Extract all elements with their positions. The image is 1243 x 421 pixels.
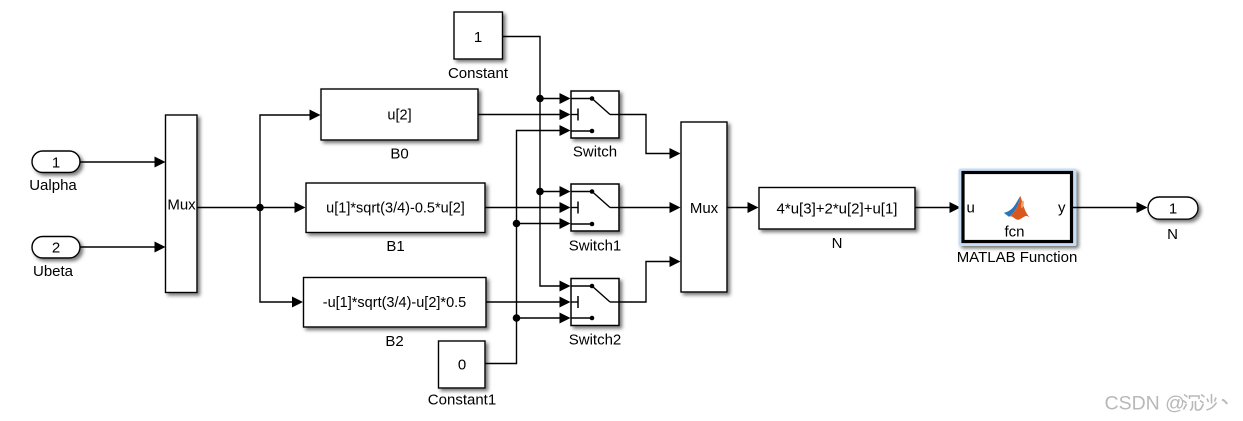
switch block Switch1 xyxy=(571,184,619,231)
watermark glyph 沙 xyxy=(1200,394,1217,410)
block B0 xyxy=(321,89,478,140)
junction Constant1 trunk to Switch2 in3 xyxy=(513,314,521,322)
wire B1 to Switch1 middle input xyxy=(485,202,571,213)
svg-text:u[1]*sqrt(3/4)-0.5*u[2]: u[1]*sqrt(3/4)-0.5*u[2] xyxy=(326,201,465,217)
wire Switch2 output to Mux2 input 3 xyxy=(619,256,681,302)
svg-text:u[2]: u[2] xyxy=(387,108,411,124)
svg-text:u: u xyxy=(967,200,975,217)
MATLAB Function block selection halo xyxy=(959,169,1077,247)
svg-text:B1: B1 xyxy=(386,238,404,255)
wire Mux1 output to junction xyxy=(197,207,260,209)
wire Ualpha to Mux xyxy=(80,157,166,168)
svg-text:1: 1 xyxy=(474,29,482,46)
wire to Switch top input xyxy=(540,93,571,104)
wire to Switch1 top input xyxy=(540,186,571,197)
constant block Constant xyxy=(454,12,503,59)
svg-text:-u[1]*sqrt(3/4)-u[2]*0.5: -u[1]*sqrt(3/4)-u[2]*0.5 xyxy=(323,295,466,311)
svg-text:CSDN @: CSDN @ xyxy=(1105,393,1185,415)
wire B0 to Switch middle input xyxy=(478,109,571,120)
MATLAB Function block U1 xyxy=(963,173,1072,242)
input port 1 (Ualpha) xyxy=(32,151,80,173)
svg-text:4*u[3]+2*u[2]+u[1]: 4*u[3]+2*u[2]+u[1] xyxy=(777,201,898,218)
junction Constant1 trunk to Switch1 in3 xyxy=(513,220,521,228)
Switch1 internals xyxy=(571,189,619,226)
block N xyxy=(759,188,915,230)
svg-text:0: 0 xyxy=(458,357,466,374)
svg-text:Switch2: Switch2 xyxy=(569,332,622,349)
wire Switch1 output to Mux2 input 2 xyxy=(619,202,681,213)
svg-text:MATLAB Function: MATLAB Function xyxy=(957,249,1078,266)
input port 2 (Ubeta) xyxy=(32,237,80,259)
wire to Switch2 bottom input xyxy=(517,313,571,324)
svg-text:Switch1: Switch1 xyxy=(569,238,622,255)
wire MATLAB Function to output port xyxy=(1073,202,1148,213)
wire junction up to B0 xyxy=(260,110,321,208)
block B2 xyxy=(304,278,487,328)
Switch2 internals xyxy=(571,284,619,321)
wire Ubeta to Mux xyxy=(80,242,166,253)
watermark glyph 沉 xyxy=(1183,395,1201,411)
wire Switch output to Mux2 input 1 xyxy=(619,115,681,160)
svg-text:Ualpha: Ualpha xyxy=(29,177,77,194)
svg-text:1: 1 xyxy=(52,155,60,172)
switch block Switch xyxy=(571,91,619,138)
svg-text:Switch: Switch xyxy=(573,144,617,161)
Mux block Mux1 xyxy=(166,115,198,293)
svg-text:1: 1 xyxy=(1169,201,1177,218)
MATLAB logo xyxy=(1004,196,1030,220)
svg-text:Constant: Constant xyxy=(448,65,509,82)
wire junction to B1 xyxy=(260,202,306,213)
svg-text:Constant1: Constant1 xyxy=(428,392,496,409)
svg-text:Ubeta: Ubeta xyxy=(33,263,74,280)
junction Constant trunk to Switch1 in1 xyxy=(536,188,544,196)
svg-text:Mux: Mux xyxy=(690,200,719,217)
junction node at Mux1 output xyxy=(256,204,264,212)
Switch internals xyxy=(571,96,619,133)
junction Constant trunk to Switch in1 xyxy=(536,95,544,103)
wire Constant down trunk xyxy=(503,37,571,292)
constant block Constant1 xyxy=(439,341,486,388)
svg-text:N: N xyxy=(832,235,843,252)
watermark glyph dot stroke xyxy=(1222,400,1227,405)
svg-text:y: y xyxy=(1058,200,1066,217)
svg-text:B2: B2 xyxy=(385,333,403,350)
wire N to MATLAB Function xyxy=(915,202,961,213)
wire to Switch1 bottom input xyxy=(517,218,571,229)
Mux block Mux2 xyxy=(681,122,727,292)
svg-text:N: N xyxy=(1167,226,1178,243)
svg-text:2: 2 xyxy=(52,240,60,257)
wire junction down to B2 xyxy=(260,208,303,308)
svg-text:Mux: Mux xyxy=(167,197,196,214)
switch block Switch2 xyxy=(571,279,619,326)
wire Constant1 up trunk xyxy=(485,125,571,364)
svg-text:B0: B0 xyxy=(390,146,408,163)
svg-text:fcn: fcn xyxy=(1004,224,1024,241)
block B1 xyxy=(306,183,485,233)
wire Mux2 output to N xyxy=(727,202,759,213)
output port 1 (N) xyxy=(1148,197,1198,219)
wire B2 to Switch2 middle input xyxy=(486,297,571,308)
